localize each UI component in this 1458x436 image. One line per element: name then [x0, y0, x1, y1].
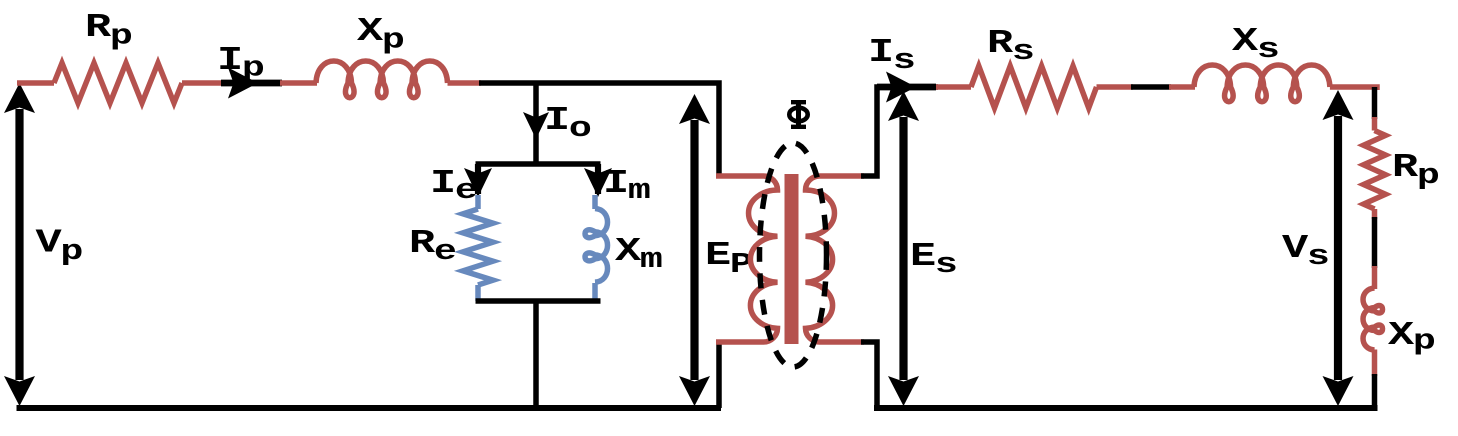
label Xp: [357, 13, 405, 57]
label Ie: [430, 165, 478, 208]
resistor Re: [463, 195, 493, 301]
wire: top-left red stub: [17, 80, 54, 86]
wire: red after Xs to corner: [1330, 87, 1377, 90]
label Rs: [987, 25, 1035, 69]
svg-text:Rp: Rp: [1392, 149, 1440, 193]
svg-text:Rp: Rp: [85, 9, 133, 53]
voltage arrow Es: [888, 91, 919, 406]
inductor Xp (primary): [316, 61, 448, 98]
wire: black between load Rp and Xp: [1372, 217, 1378, 268]
svg-text:Xm: Xm: [615, 233, 663, 277]
label Es: [910, 238, 958, 282]
wire: shunt stub to rail: [533, 301, 539, 408]
inductor Xs: [1194, 65, 1330, 102]
resistor Rp (primary): [54, 63, 182, 103]
wire: red lead into load Rp: [1372, 117, 1378, 131]
svg-text:Xp: Xp: [357, 13, 405, 57]
svg-text:Ip: Ip: [217, 42, 265, 85]
svg-text:Im: Im: [603, 165, 651, 208]
wire: red after Rs: [1097, 84, 1134, 90]
current arrow Im: [584, 164, 612, 197]
current arrow Is: [877, 72, 936, 103]
wire: parallel bottom bar: [476, 298, 601, 304]
wire: primary bottom corner riser: [716, 340, 722, 408]
inductor Xp (load): [1363, 266, 1383, 376]
wire: red before Xs: [1169, 84, 1195, 90]
resistor Rs: [971, 66, 1097, 108]
wire: black mid segment: [1131, 84, 1171, 90]
label Im: [603, 165, 651, 208]
svg-text:Xp: Xp: [1388, 317, 1436, 358]
label Vs: [1282, 230, 1330, 274]
transformer core: [785, 174, 799, 344]
wire: secondary bottom corner: [861, 342, 877, 408]
label Re: [409, 225, 457, 269]
label Xp (load): [1388, 317, 1436, 358]
wire: red between Rp and Ip arrow: [182, 80, 223, 86]
wire: red before Rs: [936, 84, 971, 90]
label Ep: [705, 237, 753, 282]
wire: red between Ip and Xp: [280, 80, 317, 86]
current arrow Ie: [464, 164, 492, 197]
wire: parallel top bar: [476, 161, 601, 167]
current arrow Ip: [221, 68, 282, 99]
label Xs: [1232, 23, 1280, 67]
voltage arrow Ep: [679, 94, 710, 406]
wire: black bottom of load branch: [1372, 374, 1378, 408]
wire: red after Xp: [448, 80, 482, 86]
voltage arrow Vs: [1323, 90, 1354, 406]
transformer secondary winding: [806, 176, 865, 342]
label Io: [544, 102, 592, 146]
wire: shunt branch drop with node: [533, 83, 539, 166]
svg-text:Rs: Rs: [987, 25, 1035, 69]
svg-text:Io: Io: [544, 102, 592, 146]
label Xm: [615, 233, 663, 277]
label flux Φ: [789, 101, 807, 128]
label Ip: [217, 42, 265, 85]
wire: red tail after load Rp: [1372, 209, 1378, 219]
wire: black top to transformer corner: [479, 83, 719, 176]
wire: primary bottom rail: [17, 405, 722, 411]
svg-text:Vs: Vs: [1282, 230, 1330, 274]
label Is: [868, 34, 916, 78]
label Rp (load): [1392, 149, 1440, 193]
svg-text:Xs: Xs: [1232, 23, 1280, 67]
label Rp: [85, 9, 133, 53]
svg-text:Re: Re: [409, 225, 457, 269]
svg-text:Vp: Vp: [36, 224, 84, 268]
transformer primary winding: [716, 176, 778, 342]
label Vp: [36, 224, 84, 268]
voltage arrow Vp: [4, 83, 35, 406]
wire: black top of load branch: [1372, 87, 1378, 119]
wire: secondary top corner: [861, 87, 938, 176]
svg-text:Is: Is: [868, 34, 916, 78]
inductor Xm: [585, 195, 608, 301]
flux path dashed ellipse: [760, 143, 827, 367]
resistor Rp (load): [1364, 131, 1386, 210]
current arrow Io: [523, 112, 549, 139]
svg-text:Es: Es: [910, 238, 958, 282]
wire: secondary bottom rail: [874, 405, 1378, 411]
svg-text:EP: EP: [705, 237, 753, 282]
